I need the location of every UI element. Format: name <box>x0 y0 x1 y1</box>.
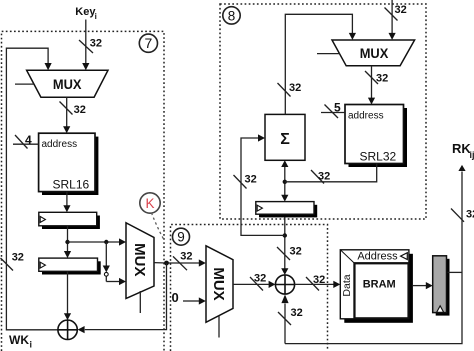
bus slash 32 on feedback wire <box>1 252 24 271</box>
svg-text:Key: Key <box>75 6 96 18</box>
svg-text:MUX: MUX <box>210 267 227 300</box>
svg-text:32: 32 <box>74 104 86 116</box>
svg-text:WK: WK <box>9 333 29 347</box>
wire RK_ij output and feedback loop <box>285 172 462 344</box>
svg-text:32: 32 <box>291 307 303 319</box>
XOR X2 <box>275 275 294 294</box>
junction node at x=106 <box>104 240 108 244</box>
wire WK feedback (left loop into MUX U0) <box>6 48 58 330</box>
wire sigma-register bidirectional <box>284 167 286 195</box>
wire register R3 output down to XOR X2 <box>284 214 286 268</box>
label circled 9 <box>173 228 190 245</box>
svg-text:BRAM: BRAM <box>363 278 396 290</box>
svg-text:32: 32 <box>289 82 301 94</box>
svg-text:MUX: MUX <box>131 243 148 276</box>
bus slash 32 on RK output <box>451 209 474 222</box>
node Key_i input label <box>75 6 97 21</box>
bus slash 32 MUX U0 output <box>60 102 86 117</box>
wire 5-bit address input to SRL32 <box>321 101 345 119</box>
wire XOR X2 bottom input from feedback <box>284 304 286 344</box>
wire BRAM output to register R4 <box>413 285 426 287</box>
svg-text:32: 32 <box>90 38 102 50</box>
svg-text:32: 32 <box>466 209 474 221</box>
svg-text:address: address <box>42 139 78 150</box>
svg-text:0: 0 <box>172 290 179 305</box>
wire MUX U5 output to SRL32 <box>371 66 373 98</box>
bus slash 32 on bottom input <box>278 307 303 325</box>
wire MUX U2 output to MUX U3 with junction <box>154 262 199 264</box>
bus slash 32 above XOR X2 <box>277 246 302 261</box>
mux U3 (box 9 mux, vertical) <box>206 246 233 338</box>
bus slash 32 on feedback <box>278 82 302 97</box>
svg-text:8: 8 <box>228 8 236 23</box>
frame box 9 (dotted) <box>171 225 328 351</box>
svg-text:SRL16: SRL16 <box>53 178 90 192</box>
junction node on R1-R2 wire <box>65 240 69 244</box>
svg-text:32: 32 <box>318 171 330 183</box>
wire 4-bit address input to SRL16 <box>13 133 39 149</box>
wire tap to MUX U2 input A <box>68 241 120 243</box>
bus slash 32 on top input <box>385 4 407 21</box>
wire R1 to R2 with junction <box>67 226 69 252</box>
register R2 <box>39 258 101 274</box>
wire XOR X2 output to BRAM <box>295 283 334 285</box>
mux U0 (top-left MUX) <box>15 70 108 97</box>
wire MUX U0 output to SRL16 <box>66 97 68 127</box>
svg-text:32: 32 <box>395 4 407 16</box>
wire Key_i into MUX U0 <box>85 20 87 64</box>
bus slash 32 on SRL32 output <box>311 170 330 184</box>
XOR X1 (WK xor) <box>58 320 77 339</box>
svg-text:32: 32 <box>313 274 325 286</box>
svg-text:5: 5 <box>334 101 341 115</box>
node RK_ij output label <box>452 141 474 160</box>
svg-text:address: address <box>348 111 384 122</box>
svg-text:Address: Address <box>357 251 398 263</box>
svg-text:7: 7 <box>145 35 153 51</box>
register R1 <box>39 212 100 229</box>
mux U5 (box 8 MUX) <box>317 40 415 66</box>
node K label (red, circled) <box>140 193 164 240</box>
junction node to sigma branch <box>283 233 287 237</box>
svg-text:K: K <box>145 196 154 211</box>
svg-text:RK: RK <box>452 141 471 156</box>
wire R2 to XOR X1 <box>67 271 69 314</box>
frame box 7 (dotted) <box>2 31 165 351</box>
BRAM U7 <box>340 250 413 323</box>
svg-text:32: 32 <box>180 251 192 263</box>
wire sigma top feedback to MUX U5 <box>285 14 352 114</box>
svg-text:i: i <box>30 340 33 350</box>
svg-text:MUX: MUX <box>360 46 389 62</box>
wire branch to adder U4 left input <box>241 138 285 235</box>
bus slash 32 on BRAM input <box>306 274 325 291</box>
wire R4 output tap <box>448 271 462 273</box>
bus slash 32 on U3 output <box>250 273 266 291</box>
svg-text:32: 32 <box>290 246 302 258</box>
node constant 0 input <box>172 290 206 305</box>
register R4 (gray output register) <box>433 256 450 316</box>
wire MUX U3 output to XOR X2 <box>233 283 269 285</box>
svg-text:SRL32: SRL32 <box>360 150 397 164</box>
adder U4 (sigma) <box>265 114 305 160</box>
register R3 (box 8) <box>256 202 317 218</box>
svg-text:i: i <box>95 12 97 21</box>
label circled 8 <box>223 7 240 24</box>
svg-text:32: 32 <box>254 273 266 285</box>
bus slash 32 on Key wire <box>79 38 102 54</box>
wire SRL16 to register R1 <box>66 192 68 206</box>
SRL32 U6 <box>345 105 407 168</box>
node WK_i output label <box>9 333 32 350</box>
svg-text:Data: Data <box>341 274 353 296</box>
junction node sigma-register <box>283 180 287 184</box>
wire SRL32 output to sigma-register junction <box>285 164 377 182</box>
SRL16 U1 <box>39 133 99 195</box>
svg-text:9: 9 <box>177 230 185 245</box>
wire with inverter bubble to MUX U2 input B <box>106 242 119 282</box>
wire junction down to XOR X1 right input <box>85 263 167 330</box>
svg-text:MUX: MUX <box>53 76 82 92</box>
wire top 32 input into MUX U5 <box>391 0 393 33</box>
label circled 7 <box>139 34 157 52</box>
svg-text:Σ: Σ <box>280 131 290 148</box>
svg-text:32: 32 <box>12 252 24 264</box>
frame box 8 (dotted) <box>220 4 426 219</box>
svg-text:32: 32 <box>245 174 257 186</box>
bus slash 32 on K wire <box>173 251 193 271</box>
svg-text:4: 4 <box>25 133 32 147</box>
svg-text:32: 32 <box>376 73 388 85</box>
svg-text:ij: ij <box>470 150 474 160</box>
bus slash 32 on U5 output <box>365 71 388 85</box>
bus slash 32 on adder input branch <box>234 174 257 189</box>
mux U2 (K mux, vertical) <box>126 223 154 313</box>
